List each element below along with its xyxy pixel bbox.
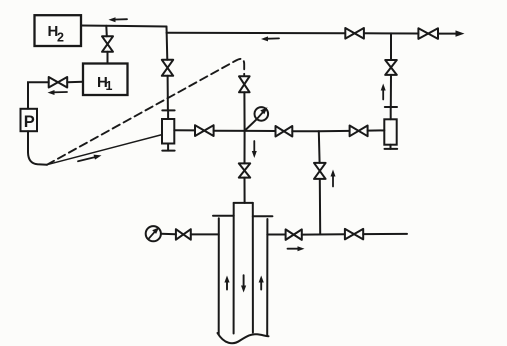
wire top junction down to valve V7 bbox=[390, 33, 392, 60]
wire valve V6 to outlet arrow bbox=[438, 30, 465, 36]
wire flowmeter FM1 to valve V9 bbox=[174, 129, 195, 131]
flow arrow up (right annulus) bbox=[259, 276, 264, 290]
valve V12 bbox=[314, 163, 326, 179]
vessel H2 bbox=[35, 15, 82, 46]
reactor inner tube bbox=[234, 203, 253, 334]
flow arrow up (left annulus) bbox=[224, 276, 229, 290]
wire valve V7 to flowmeter FM2 bbox=[385, 75, 397, 119]
flow arrow left (top, above line) bbox=[109, 17, 128, 22]
wire P bottom hook bbox=[28, 131, 47, 165]
svg-text:2: 2 bbox=[57, 31, 64, 45]
reactor wavy break bottom bbox=[218, 333, 269, 343]
wire valve V14 through junction to valve V15 bbox=[302, 233, 345, 235]
flow arrow up (beside V12) bbox=[331, 170, 336, 187]
flowmeter FM2 bbox=[384, 119, 397, 149]
flow arrow left (top right line) bbox=[261, 36, 279, 41]
wire corner to valve V11 bbox=[319, 130, 350, 132]
vessel H1 bbox=[83, 64, 128, 96]
wire junction down to valve V1 bbox=[105, 26, 108, 37]
valve V11 bbox=[350, 126, 368, 137]
wire valve V12 down to bottom line bbox=[319, 179, 321, 234]
dashed signal line to valve V3 bbox=[47, 59, 244, 165]
valve V14 bbox=[286, 229, 302, 240]
sensor P bbox=[21, 109, 38, 131]
valve V15 bbox=[345, 229, 363, 240]
wire jacket to valve V14 bbox=[267, 234, 285, 236]
wire valve V11 to flowmeter FM2 bbox=[368, 129, 385, 131]
gauge PI2 bbox=[245, 107, 268, 130]
wire corner down to valve V12 bbox=[318, 131, 321, 163]
reactor jacket walls bbox=[219, 218, 268, 335]
wire top main line right segment bbox=[167, 32, 346, 34]
flowmeter FM1 bbox=[162, 110, 175, 150]
wire top corner down to valve V4 bbox=[166, 27, 169, 60]
wire valve V15 to right end bbox=[363, 233, 407, 235]
flow arrow down (inner tube) bbox=[241, 275, 246, 292]
valve V7 bbox=[385, 60, 397, 75]
flow arrow down (below central junction) bbox=[252, 141, 257, 158]
wire valve V3 down to junction bbox=[243, 92, 245, 131]
wire valve V10 to corner bbox=[292, 130, 319, 132]
svg-text:P: P bbox=[24, 113, 35, 131]
valve V3 bbox=[239, 76, 250, 92]
valve V1 bbox=[102, 36, 113, 52]
wire valve V5 to valve V6 bbox=[364, 32, 418, 34]
flow arrow right (on solid line) bbox=[78, 155, 102, 162]
valve V5 bbox=[345, 28, 364, 39]
valve V4 bbox=[162, 60, 173, 76]
svg-text:1: 1 bbox=[106, 79, 113, 93]
capillary solid line to flowmeter FM1 bbox=[47, 135, 162, 165]
wire valve V1 to H1 bbox=[107, 52, 109, 64]
wire valve V2 to P bbox=[28, 82, 49, 109]
valve V6 bbox=[418, 28, 438, 39]
wire valve V4 to flowmeter FM1 bbox=[167, 76, 169, 111]
flow arrow left (below valve V2) bbox=[48, 90, 68, 95]
wire H1 to valve V2 bbox=[67, 81, 83, 84]
wire valve V9 through junction to valve V10 bbox=[214, 130, 276, 132]
valve V10 bbox=[276, 126, 293, 137]
valve V2 bbox=[49, 77, 67, 88]
valve V8 bbox=[239, 163, 250, 177]
gauge PI1 bbox=[146, 226, 176, 241]
wire valve V13 to jacket bbox=[191, 233, 219, 235]
wire junction down to valve V8 bbox=[244, 131, 246, 164]
wire H2 to corner bbox=[81, 26, 167, 27]
flow arrow right (below V14) bbox=[288, 246, 305, 251]
valve V13 bbox=[176, 229, 191, 240]
wire valve V8 to reactor top bbox=[244, 178, 246, 203]
flow arrow up (beside V7 line) bbox=[381, 84, 386, 100]
valve V9 bbox=[195, 125, 214, 136]
reactor flange bbox=[213, 215, 272, 217]
